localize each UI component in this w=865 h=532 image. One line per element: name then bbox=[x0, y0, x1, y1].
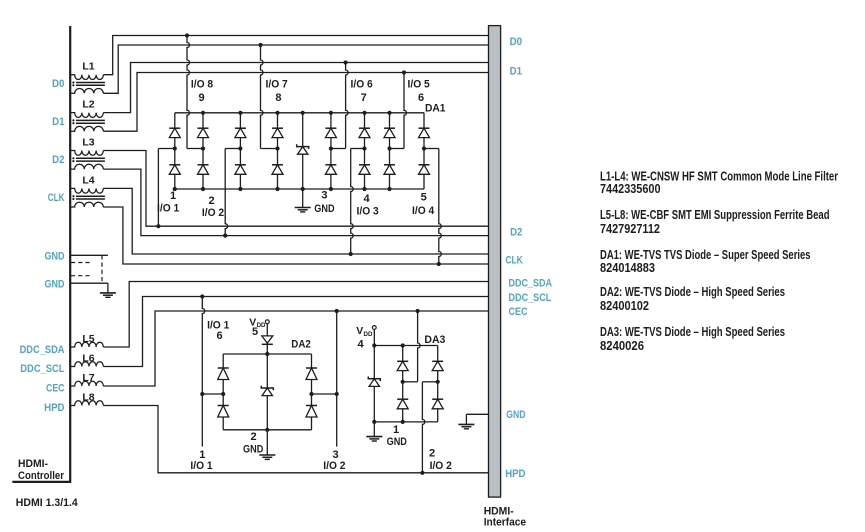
dashed link vertical bbox=[101, 255, 103, 283]
node label CLK (interface side) bbox=[505, 255, 522, 267]
svg-text:5: 5 bbox=[252, 326, 258, 338]
DA2 top rail bbox=[223, 353, 311, 355]
svg-text:I/O 8: I/O 8 bbox=[191, 79, 213, 91]
DA1 bottom rail (GND) bbox=[175, 188, 424, 190]
DA2 center zener diode bbox=[261, 354, 273, 430]
label HDMI-Interface bbox=[484, 505, 526, 528]
svg-text:6: 6 bbox=[418, 92, 424, 104]
DA3 pin 2 lead (I/O 2) to HPD bbox=[422, 382, 437, 473]
wire D1+ (L2 top to interface) bbox=[103, 63, 488, 113]
DA1 channel 5 lower diode bbox=[325, 149, 336, 190]
svg-text:I/O 1: I/O 1 bbox=[190, 460, 212, 472]
svg-text:DD: DD bbox=[364, 331, 373, 338]
DA2 pin 2 GND lead bbox=[266, 430, 268, 455]
part list text: 82400102 bbox=[600, 298, 649, 313]
node label D0 (interface side) bbox=[510, 36, 522, 48]
svg-text:GND: GND bbox=[243, 444, 263, 456]
DA1 pin 6 lead (I/O 5) bbox=[390, 73, 407, 149]
DA3 pin label I/O 2 bbox=[430, 460, 452, 472]
node label DDC_SCL (controller side) bbox=[20, 363, 64, 375]
DA2 pin 5 diode bbox=[262, 336, 273, 354]
DA3 VDD terminal bbox=[372, 326, 376, 346]
svg-text:DDC_SCL: DDC_SCL bbox=[20, 363, 64, 375]
TVS diode DA2 label bbox=[291, 338, 311, 350]
svg-text:CLK: CLK bbox=[48, 192, 65, 204]
junction CLK- / pin5 bbox=[437, 262, 441, 266]
svg-text:GND: GND bbox=[506, 409, 525, 421]
svg-text:7427927112: 7427927112 bbox=[600, 221, 660, 236]
svg-text:HDMI-: HDMI- bbox=[18, 458, 48, 470]
svg-text:4: 4 bbox=[363, 193, 370, 205]
DA1 channel 2 upper diode bbox=[198, 113, 209, 149]
svg-text:D2: D2 bbox=[510, 227, 522, 239]
DA3 left upper diode bbox=[397, 346, 408, 382]
svg-text:DA3: WE-TVS Diode – High Speed: DA3: WE-TVS Diode – High Speed Series bbox=[600, 324, 785, 339]
DA3 zener diode bbox=[368, 346, 380, 422]
DA1 pin label I/O 4 bbox=[412, 205, 435, 217]
part list text: 7427927112 bbox=[600, 221, 660, 236]
node label HPD (interface side) bbox=[505, 468, 525, 480]
part list text: DA1: WE-TVS TVS Diode &#8211 bbox=[600, 247, 811, 262]
DA2 left upper diode bbox=[218, 354, 229, 394]
svg-text:DDC_SDA: DDC_SDA bbox=[20, 344, 65, 356]
svg-text:8240026: 8240026 bbox=[600, 338, 644, 353]
wire D2+ (L3 top to interface) bbox=[103, 151, 488, 227]
svg-text:I/O 2: I/O 2 bbox=[323, 460, 345, 472]
wire to interface ground bbox=[465, 414, 467, 424]
DA3 pin label GND bbox=[387, 436, 407, 448]
DA1 pin label I/O 8 bbox=[191, 79, 213, 91]
DA3 right upper diode bbox=[432, 346, 443, 382]
TVS array DA1 label bbox=[425, 103, 446, 115]
svg-text:HDMI-: HDMI- bbox=[484, 505, 514, 517]
part list text: 8240026 bbox=[600, 338, 644, 353]
DA1 channel 5 upper diode bbox=[325, 113, 336, 149]
DA1 channel 6 upper diode bbox=[359, 113, 370, 149]
DA2 left lower diode bbox=[218, 394, 229, 430]
svg-text:D2: D2 bbox=[52, 154, 64, 166]
DA2 bottom rail bbox=[223, 429, 311, 431]
junction D2- / pin2 bbox=[223, 234, 227, 238]
common-mode choke L4 bbox=[70, 174, 105, 207]
svg-text:4: 4 bbox=[357, 339, 364, 351]
svg-text:3: 3 bbox=[321, 190, 327, 202]
DA3 junction dots bbox=[372, 343, 440, 424]
DA2 pin label I/O 1 (bottom) bbox=[190, 460, 212, 472]
svg-text:1: 1 bbox=[393, 424, 399, 436]
DA1 center zener diode bbox=[297, 113, 309, 189]
svg-text:CEC: CEC bbox=[509, 306, 528, 318]
DA2 pin number 3 bbox=[332, 449, 338, 461]
DA3 pin number 1 bbox=[393, 424, 399, 436]
svg-text:I/O 4: I/O 4 bbox=[412, 205, 435, 217]
ground (DA2 pin 2) bbox=[259, 455, 275, 459]
DA3 pin number 4 bbox=[357, 339, 364, 351]
DA3 VDD label bbox=[356, 325, 373, 338]
wire DDC_SDA (L5 to interface) bbox=[103, 282, 488, 348]
svg-text:2: 2 bbox=[429, 448, 435, 460]
DA1 pin label I/O 3 bbox=[357, 206, 379, 218]
svg-text:GND: GND bbox=[45, 250, 65, 262]
node label D1 (interface side) bbox=[510, 65, 522, 77]
DA1 pin number 1 bbox=[170, 190, 176, 202]
DA1 pin 4 lead (I/O 3) bbox=[351, 149, 365, 255]
DA2 junction dots bbox=[200, 352, 339, 432]
DA1 pin number 5 bbox=[421, 192, 427, 204]
DA1 pin 7 lead (I/O 6) bbox=[331, 63, 348, 149]
DA3 top rail bbox=[374, 345, 437, 347]
DA1 pin label GND bbox=[314, 203, 334, 215]
svg-text:L3: L3 bbox=[82, 137, 94, 149]
svg-text:L1: L1 bbox=[82, 61, 94, 73]
svg-text:9: 9 bbox=[198, 92, 204, 104]
wire D0- (L1 bottom to interface) bbox=[103, 45, 488, 93]
DA2 pin label I/O 2 (bottom) bbox=[323, 460, 345, 472]
svg-text:DA2: DA2 bbox=[291, 338, 311, 350]
DA2 pin number 1 bbox=[199, 449, 205, 461]
ferrite bead L8 bbox=[70, 392, 103, 406]
node label CEC (interface side) bbox=[509, 306, 528, 318]
part list text: 824014883 bbox=[600, 260, 655, 275]
DA1 pin 9 lead (I/O 8) bbox=[187, 36, 203, 149]
node label GND (interface side) bbox=[506, 409, 525, 421]
ground (DA1 pin 3) bbox=[295, 208, 311, 212]
wire CEC (L7 to interface) bbox=[103, 311, 488, 386]
svg-text:I/O 5: I/O 5 bbox=[408, 79, 430, 91]
DA1 channel 1 upper diode bbox=[169, 113, 180, 149]
svg-text:I/O 6: I/O 6 bbox=[351, 79, 373, 91]
part list text: 7442335600 bbox=[600, 181, 661, 196]
DA3 input lead from CEC bbox=[403, 311, 420, 382]
svg-text:L2: L2 bbox=[82, 99, 94, 111]
svg-text:I/O 7: I/O 7 bbox=[266, 79, 288, 91]
DA1 bottom rail junctions bbox=[173, 187, 392, 191]
svg-text:GND: GND bbox=[314, 203, 334, 215]
wire CLK+ (L4 top to interface) bbox=[103, 188, 488, 254]
DA3 pin 1 GND lead bbox=[373, 422, 375, 436]
node label D2 (interface side) bbox=[510, 227, 522, 239]
part list text: DA3: WE-TVS Diode &#8211; Hi bbox=[600, 324, 785, 339]
DA1 channel 1 lower diode bbox=[169, 149, 180, 190]
svg-text:8: 8 bbox=[275, 92, 281, 104]
DA2 pin label GND bbox=[243, 444, 263, 456]
svg-text:D0: D0 bbox=[510, 36, 522, 48]
DA2 pin 3 lead (I/O 2) bbox=[312, 311, 337, 447]
svg-text:5: 5 bbox=[421, 192, 427, 204]
DA3 bottom rail bbox=[374, 421, 437, 423]
ferrite bead L5 bbox=[70, 333, 103, 347]
node label GND (controller side) bbox=[45, 250, 65, 262]
svg-text:L8: L8 bbox=[82, 392, 94, 404]
svg-text:HPD: HPD bbox=[505, 468, 525, 480]
ground (interface) bbox=[458, 424, 474, 428]
HDMI interface connector bar bbox=[489, 26, 501, 498]
DA1 pin 5 lead (I/O 4) bbox=[424, 149, 441, 265]
DA2 pin number 5 bbox=[252, 326, 258, 338]
DA2 pin 1 stub (I/O 1 bottom) bbox=[201, 394, 203, 447]
DA1 channel 7 upper diode bbox=[384, 113, 395, 149]
node label D2 (controller side) bbox=[52, 154, 64, 166]
ferrite bead L7 bbox=[70, 372, 103, 386]
svg-text:6: 6 bbox=[216, 330, 222, 342]
dashed link horizontal 2 bbox=[71, 275, 90, 277]
DA1 channel 3 upper diode bbox=[235, 113, 246, 149]
DA2 right upper diode bbox=[306, 354, 317, 394]
svg-text:D1: D1 bbox=[510, 65, 522, 77]
DA1 pin 3 GND lead bbox=[302, 189, 304, 207]
node label D0 (controller side) bbox=[52, 78, 65, 90]
wire GND pin 2 stub bbox=[70, 282, 108, 284]
svg-text:7442335600: 7442335600 bbox=[600, 181, 661, 196]
node label DDC_SDA (controller side) bbox=[20, 344, 65, 356]
DA1 channel 4 upper diode bbox=[272, 113, 283, 149]
DA1 pin 1 lead (I/O 1) bbox=[158, 149, 174, 227]
TVS diode DA3 label bbox=[424, 334, 445, 346]
DA1 channel 8 lower diode bbox=[419, 149, 430, 190]
svg-text:Controller: Controller bbox=[18, 470, 65, 482]
junction CLK+ / pin4 bbox=[349, 252, 353, 256]
wire GND pin 1 stub bbox=[70, 254, 108, 256]
junction D0+ / pin9 bbox=[185, 33, 189, 37]
wire D0+ (L1 top to interface) bbox=[103, 36, 488, 75]
junction D1- / pin6 bbox=[402, 70, 406, 74]
DA1 pin number 9 bbox=[198, 92, 204, 104]
DA1 pin 2 lead (I/O 2) bbox=[225, 149, 240, 236]
DA2 pin 6 lead (I/O 1 top) bbox=[202, 297, 223, 395]
svg-text:D0: D0 bbox=[52, 78, 65, 90]
part list text: L1-L4: WE-CNSW HF SMT Common bbox=[600, 168, 838, 183]
DA2 VDD terminal bbox=[265, 320, 269, 336]
DA3 left lower diode bbox=[397, 382, 408, 422]
DA1 pin 8 lead (I/O 7) bbox=[261, 45, 278, 149]
node label DDC_SCL (interface side) bbox=[509, 292, 552, 304]
svg-text:HDMI 1.3/1.4: HDMI 1.3/1.4 bbox=[16, 497, 79, 509]
ferrite bead L6 bbox=[70, 353, 103, 367]
junction D0- / pin8 bbox=[258, 43, 262, 47]
wire D2- (L3 bottom to interface) bbox=[103, 169, 488, 236]
DA1 pin label I/O 5 bbox=[408, 79, 430, 91]
svg-text:L5: L5 bbox=[82, 333, 94, 345]
wire CLK- (L4 bottom to interface) bbox=[103, 207, 488, 264]
node label HPD (controller side) bbox=[44, 402, 64, 414]
svg-text:7: 7 bbox=[361, 92, 367, 104]
svg-text:CLK: CLK bbox=[505, 255, 522, 267]
DA1 pin label I/O 6 bbox=[351, 79, 373, 91]
svg-text:I/O 2: I/O 2 bbox=[202, 207, 224, 219]
node label CEC (controller side) bbox=[46, 383, 65, 395]
dashed link horizontal 1 bbox=[71, 262, 90, 264]
node label CLK (controller side) bbox=[48, 192, 65, 204]
DA1 pin label I/O 1 (bottom) bbox=[157, 203, 179, 215]
svg-text:D1: D1 bbox=[52, 116, 64, 128]
junction HPD / DA3 pin2 bbox=[420, 471, 424, 475]
DA1 channel 6 lower diode bbox=[359, 149, 370, 190]
DA1 pin number 7 bbox=[361, 92, 367, 104]
svg-text:HPD: HPD bbox=[44, 402, 64, 414]
svg-text:Interface: Interface bbox=[484, 517, 526, 529]
junction CEC / DA3 input bbox=[416, 309, 420, 313]
svg-text:CEC: CEC bbox=[46, 383, 65, 395]
svg-text:L7: L7 bbox=[82, 372, 94, 384]
DA1 channel 4 lower diode bbox=[272, 149, 283, 190]
svg-text:I/O 2: I/O 2 bbox=[430, 460, 452, 472]
svg-text:I/O 3: I/O 3 bbox=[357, 206, 379, 218]
svg-text:824014883: 824014883 bbox=[600, 260, 655, 275]
node label D1 (controller side) bbox=[52, 116, 64, 128]
svg-text:L5-L8: WE-CBF SMT EMI Suppress: L5-L8: WE-CBF SMT EMI Suppression Ferrit… bbox=[600, 207, 830, 222]
DA1 pin number 6 bbox=[418, 92, 424, 104]
DA3 right lower diode bbox=[432, 382, 443, 422]
wire DDC_SCL (L6 to interface) bbox=[103, 297, 488, 367]
ground (controller) bbox=[100, 293, 116, 297]
svg-text:82400102: 82400102 bbox=[600, 298, 649, 313]
wire to controller ground bbox=[107, 283, 109, 292]
DA1 mid junctions bbox=[173, 146, 426, 150]
svg-text:L6: L6 bbox=[82, 353, 94, 365]
DA1 channel 8 upper diode bbox=[419, 113, 430, 149]
svg-text:DDC_SCL: DDC_SCL bbox=[509, 292, 552, 304]
svg-text:V: V bbox=[356, 325, 363, 337]
DA1 channel 3 lower diode bbox=[235, 149, 246, 190]
wire D1- (L2 bottom to interface) bbox=[103, 73, 488, 132]
DA2 pin number 6 bbox=[216, 330, 222, 342]
HDMI controller boundary (left bus + bottom edge) bbox=[12, 26, 70, 482]
svg-text:DA1: DA1 bbox=[425, 103, 446, 115]
common-mode choke L2 bbox=[70, 99, 105, 132]
junction CEC / DA2 pin3 bbox=[335, 309, 339, 313]
part list text: L5-L8: WE-CBF SMT EMI Suppre bbox=[600, 207, 830, 222]
DA1 channel 2 lower diode bbox=[198, 149, 209, 190]
DA2 VDD label bbox=[249, 317, 266, 330]
DA1 pin number 3 bbox=[321, 190, 327, 202]
svg-text:DDC_SDA: DDC_SDA bbox=[509, 278, 553, 290]
junction D1+ / pin7 bbox=[344, 60, 348, 64]
wire interface GND stub bbox=[466, 413, 488, 415]
DA1 top rail (VDD) bbox=[175, 112, 424, 114]
ground (DA3 pin 1) bbox=[366, 437, 382, 441]
DA1 pin number 4 bbox=[363, 193, 370, 205]
svg-text:DA3: DA3 bbox=[424, 334, 445, 346]
wire HPD (L8 to interface) bbox=[103, 406, 488, 473]
DA1 pin number 8 bbox=[275, 92, 281, 104]
svg-text:DA2: WE-TVS Diode – High Speed: DA2: WE-TVS Diode – High Speed Series bbox=[600, 284, 785, 299]
svg-text:GND: GND bbox=[387, 436, 407, 448]
node label DDC_SDA (interface side) bbox=[509, 278, 553, 290]
DA1 channel 7 lower diode bbox=[384, 149, 395, 190]
junction DDC_SCL / DA2 pin6 bbox=[200, 294, 204, 298]
DA3 pin number 2 bbox=[429, 448, 435, 460]
DA2 right lower diode bbox=[306, 394, 317, 430]
label HDMI-Controller bbox=[18, 458, 65, 482]
DA1 top rail junctions bbox=[201, 111, 392, 115]
svg-text:I/O 1: I/O 1 bbox=[157, 203, 179, 215]
svg-text:2: 2 bbox=[208, 195, 214, 207]
svg-text:GND: GND bbox=[45, 278, 65, 290]
svg-text:L4: L4 bbox=[82, 174, 94, 186]
svg-text:1: 1 bbox=[170, 190, 176, 202]
common-mode choke L3 bbox=[70, 137, 105, 170]
DA1 pin label I/O 7 bbox=[266, 79, 288, 91]
DA2 pin number 2 bbox=[251, 431, 257, 443]
part list text: DA2: WE-TVS Diode &#8211; Hi bbox=[600, 284, 785, 299]
common-mode choke L1 bbox=[70, 61, 105, 94]
DA1 pin number 2 bbox=[208, 195, 214, 207]
label HDMI 1.3/1.4 bbox=[16, 497, 79, 509]
svg-text:2: 2 bbox=[251, 431, 257, 443]
junction D2+ / pin1 bbox=[156, 224, 160, 228]
DA1 pin label I/O 2 (bottom) bbox=[202, 207, 224, 219]
node label GND (controller side) bbox=[45, 278, 65, 290]
DA2 pin label I/O 1 (top) bbox=[207, 320, 229, 332]
